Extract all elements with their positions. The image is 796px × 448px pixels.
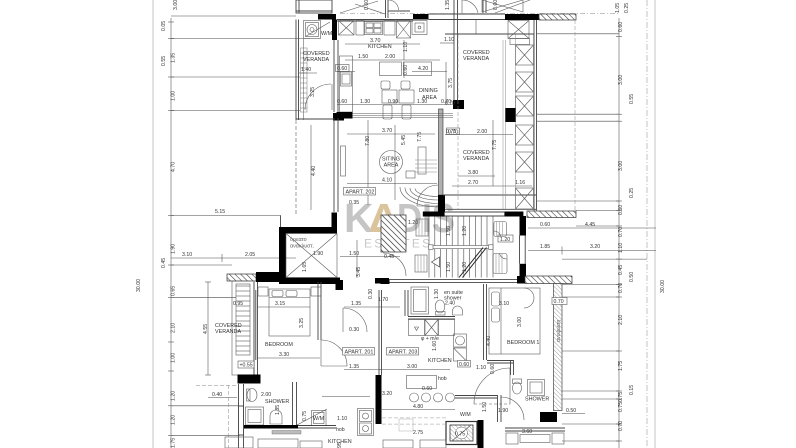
svg-text:4.70: 4.70 <box>171 162 177 172</box>
svg-text:0.70: 0.70 <box>618 227 624 237</box>
wall stub <box>487 360 514 375</box>
svg-text:3.00: 3.00 <box>618 75 624 85</box>
svg-text:1.20: 1.20 <box>171 415 177 425</box>
1.85 / 3.20 dimension row <box>528 250 656 252</box>
svg-text:2.05: 2.05 <box>245 252 255 258</box>
svg-text:3.70: 3.70 <box>382 128 392 134</box>
svg-text:1.10: 1.10 <box>444 37 454 43</box>
dining table <box>381 81 414 119</box>
stair direction arrow <box>432 257 440 267</box>
diagonal at top right room <box>495 0 530 13</box>
left extension lines <box>171 16 310 435</box>
svg-text:95: 95 <box>337 442 343 448</box>
svg-text:BEDROOM 1: BEDROOM 1 <box>507 340 539 346</box>
siting door arc to veranda <box>417 185 438 206</box>
svg-text:1.20: 1.20 <box>500 237 510 243</box>
svg-text:1.40: 1.40 <box>301 67 311 73</box>
svg-text:1.20: 1.20 <box>462 262 468 272</box>
svg-text:AREA: AREA <box>384 163 399 169</box>
svg-text:όρεατο: όρεατο <box>290 236 307 243</box>
svg-text:2.10: 2.10 <box>171 323 177 333</box>
toilet 203 <box>435 300 462 315</box>
svg-text:3.15: 3.15 <box>275 301 285 307</box>
svg-text:4.20: 4.20 <box>418 66 428 72</box>
svg-text:1.20: 1.20 <box>171 391 177 401</box>
svg-text:0.70: 0.70 <box>446 129 456 135</box>
svg-text:APART. 202: APART. 202 <box>346 190 375 196</box>
black pillar mid column <box>505 108 516 122</box>
sitting room right wall lower (jog) <box>439 109 444 195</box>
dining dim row <box>337 104 455 106</box>
partial fixtures bottom cut <box>225 437 446 448</box>
svg-text:0.35: 0.35 <box>349 200 359 206</box>
wall at 483 <box>483 0 486 13</box>
5.15 setback edge vertical <box>280 215 282 227</box>
svg-text:0.70: 0.70 <box>445 101 455 107</box>
right property line <box>654 0 656 448</box>
svg-text:3.00: 3.00 <box>618 161 624 171</box>
sideboard left wall <box>341 146 346 176</box>
svg-text:1.10: 1.10 <box>337 416 347 422</box>
hatched bar E top right <box>539 14 576 20</box>
top rooms partition walls <box>386 0 411 18</box>
svg-text:1.85: 1.85 <box>540 244 550 250</box>
doors bottom of bedroom 1 <box>474 368 510 404</box>
svg-text:ανυψωση: ανυψωση <box>556 320 562 342</box>
svg-text:0.30: 0.30 <box>368 289 374 299</box>
svg-text:0.60: 0.60 <box>337 99 347 105</box>
building right edge wall <box>534 20 537 211</box>
siting room left wall <box>333 118 335 212</box>
kitchen cabinets under en-suite <box>409 320 455 336</box>
bedroom right wall + door <box>318 282 321 340</box>
svg-text:1.05: 1.05 <box>615 3 621 13</box>
svg-text:ανάκλυστ.: ανάκλυστ. <box>290 243 314 250</box>
svg-text:4.80: 4.80 <box>413 404 423 410</box>
sink unit bottom <box>358 409 374 436</box>
svg-text:3.10: 3.10 <box>499 301 509 307</box>
svg-text:1.30: 1.30 <box>417 99 427 105</box>
svg-text:1.50: 1.50 <box>446 262 452 272</box>
svg-text:3.80: 3.80 <box>468 170 478 176</box>
dining right wall <box>454 0 458 100</box>
APART. 203 box <box>387 348 419 356</box>
shower tray 203 <box>411 287 429 314</box>
svg-text:0.50: 0.50 <box>629 272 635 282</box>
svg-text:1.00: 1.00 <box>171 91 177 101</box>
svg-text:3.25: 3.25 <box>310 87 316 97</box>
svg-text:1.20: 1.20 <box>408 220 418 226</box>
0.70 boxed on wall <box>447 128 460 135</box>
svg-text:3.00: 3.00 <box>407 364 417 370</box>
svg-text:0.45: 0.45 <box>618 265 624 275</box>
black bar H <box>453 100 464 109</box>
shower right wall <box>293 382 297 425</box>
bed <box>258 287 321 336</box>
veranda door arc <box>305 84 331 110</box>
top-left room above W/M <box>296 0 332 13</box>
svg-text:0.75: 0.75 <box>618 402 624 412</box>
svg-text:0.45: 0.45 <box>161 258 167 268</box>
svg-text:1.50: 1.50 <box>482 402 488 412</box>
bedroom 1 bed <box>489 288 540 354</box>
svg-text:0.60: 0.60 <box>618 22 624 32</box>
svg-text:1.35: 1.35 <box>445 0 451 10</box>
W/M bottom left apt <box>312 411 327 426</box>
wall + door to 203 shower <box>455 395 501 422</box>
greek room interior X <box>286 234 337 278</box>
black bar at veranda/stair junction <box>438 195 445 212</box>
bottom windows bench <box>505 428 565 431</box>
svg-text:1.50: 1.50 <box>349 251 359 257</box>
svg-text:1.10: 1.10 <box>618 243 624 253</box>
svg-text:3.20: 3.20 <box>382 391 392 397</box>
vertical black wall B below bar A <box>332 20 337 41</box>
kitchen island <box>380 62 432 76</box>
svg-text:+0.55: +0.55 <box>240 363 253 369</box>
svg-text:3.30: 3.30 <box>279 352 289 358</box>
svg-text:1.50: 1.50 <box>358 54 368 60</box>
svg-text:2.00: 2.00 <box>261 392 271 398</box>
svg-text:4.10: 4.10 <box>382 178 392 184</box>
radiators left of stairs <box>415 219 428 272</box>
svg-text:VERANDA: VERANDA <box>463 156 489 162</box>
0.55 boxed <box>238 361 254 368</box>
svg-text:0.60: 0.60 <box>422 386 432 392</box>
svg-text:1.70: 1.70 <box>378 297 388 303</box>
svg-text:1.00: 1.00 <box>171 353 177 363</box>
bottom wall of stair block <box>375 278 389 284</box>
svg-text:SHOWER: SHOWER <box>265 399 289 405</box>
second level: 4.55 <box>207 282 209 375</box>
svg-text:1.65: 1.65 <box>302 262 308 272</box>
lift shaft hatched <box>381 215 406 252</box>
separating wall 201/203 black <box>376 375 382 424</box>
left kitchen wall + counter <box>334 40 338 112</box>
black bar G bottom of kitchen wall <box>337 112 353 119</box>
svg-text:0.90: 0.90 <box>388 99 398 105</box>
svg-text:2.70: 2.70 <box>468 180 478 186</box>
greek room walls <box>279 227 337 234</box>
svg-text:1.35: 1.35 <box>349 364 359 370</box>
bottom wall <box>244 425 298 429</box>
svg-text:1.35: 1.35 <box>171 53 177 63</box>
svg-text:0.55: 0.55 <box>161 56 167 66</box>
svg-text:1.30: 1.30 <box>434 289 440 299</box>
wall black bar D (top right) <box>505 14 539 20</box>
0.75 hatched box <box>446 420 484 448</box>
svg-text:30.00: 30.00 <box>136 279 142 292</box>
fridge units right <box>454 334 467 361</box>
svg-text:0.75: 0.75 <box>618 392 624 402</box>
svg-text:3.10: 3.10 <box>182 252 192 258</box>
black bar bottom <box>540 412 557 422</box>
svg-text:0.60: 0.60 <box>540 222 550 228</box>
svg-text:BEDROOM: BEDROOM <box>265 342 293 348</box>
bottom center faint square + dashed lines <box>399 419 413 431</box>
svg-text:3.00: 3.00 <box>517 317 523 327</box>
4.40 inner dim <box>310 125 312 210</box>
stair block top wall: black bars + lintel <box>423 212 445 217</box>
W/M room (washing machine) <box>304 21 331 39</box>
svg-text:2.00: 2.00 <box>385 54 395 60</box>
svg-text:3.60: 3.60 <box>522 429 532 435</box>
shower tray <box>246 407 264 425</box>
svg-text:0.15: 0.15 <box>629 385 635 395</box>
svg-text:0.60: 0.60 <box>459 362 469 368</box>
svg-text:0.40: 0.40 <box>212 392 222 398</box>
svg-text:VERANDA: VERANDA <box>463 56 489 62</box>
svg-text:4.45: 4.45 <box>585 222 595 228</box>
svg-text:0.95: 0.95 <box>233 301 243 307</box>
0.60 / 4.45 dimension row <box>528 227 656 229</box>
svg-text:KITCHEN: KITCHEN <box>428 358 452 364</box>
apartment separating wall black <box>336 280 344 290</box>
svg-text:1.10: 1.10 <box>476 365 486 371</box>
svg-text:1.90: 1.90 <box>171 244 177 254</box>
svg-text:0.55: 0.55 <box>629 94 635 104</box>
left property line <box>152 0 154 448</box>
svg-text:3.25: 3.25 <box>299 318 305 328</box>
door arc top room <box>389 0 399 10</box>
right wall (hatched) <box>554 284 563 411</box>
svg-text:1.50: 1.50 <box>446 226 452 236</box>
svg-text:0.70: 0.70 <box>554 299 564 305</box>
svg-text:0.70: 0.70 <box>618 421 624 431</box>
svg-text:4.55: 4.55 <box>203 324 209 334</box>
svg-text:hob: hob <box>336 427 345 433</box>
handrail <box>429 245 494 250</box>
sofas right of stairs <box>494 222 507 237</box>
left wall with window <box>239 384 244 448</box>
svg-text:3.20: 3.20 <box>590 244 600 250</box>
horizontal top edge of veranda block <box>445 33 534 35</box>
toilet <box>247 389 258 402</box>
svg-text:5.45: 5.45 <box>401 135 407 145</box>
dashed line right <box>574 20 576 210</box>
hatched roof bar + black bar top <box>227 274 256 281</box>
bedroom window wall <box>254 282 258 375</box>
svg-text:0.30: 0.30 <box>349 327 359 333</box>
left wall of bedroom1 <box>484 284 487 360</box>
walls around en-suite <box>405 290 455 319</box>
svg-text:0.50: 0.50 <box>566 408 576 414</box>
APART. 201 box <box>343 348 375 356</box>
first X box right column (wide) <box>476 20 530 45</box>
APART. 202 box <box>344 188 376 196</box>
wall black bar A (top, left of kitchen) <box>318 14 336 20</box>
svg-text:3.00: 3.00 <box>173 0 179 10</box>
1.20 boxed label <box>498 235 513 242</box>
svg-text:1.30: 1.30 <box>360 99 370 105</box>
svg-text:W/M: W/M <box>460 412 471 418</box>
svg-text:2.40: 2.40 <box>445 301 455 307</box>
svg-text:0.60: 0.60 <box>618 205 624 215</box>
svg-text:1.35: 1.35 <box>351 301 361 307</box>
5.15 dimension <box>171 214 281 216</box>
kitchen counters along top <box>339 21 428 39</box>
svg-text:7.75: 7.75 <box>417 132 423 142</box>
kitchen dim lines <box>337 40 447 105</box>
black bar bottom of bedroom <box>238 375 261 384</box>
svg-text:APART. 201: APART. 201 <box>345 350 374 356</box>
svg-text:VERANDA: VERANDA <box>303 57 329 63</box>
svg-text:0.60: 0.60 <box>337 66 347 72</box>
svg-text:3.75: 3.75 <box>448 78 454 88</box>
svg-text:1.90: 1.90 <box>313 251 323 257</box>
svg-text:1.75: 1.75 <box>618 361 624 371</box>
stair treads <box>429 217 493 278</box>
svg-text:4.40: 4.40 <box>311 166 317 176</box>
window sill lines between G and H <box>353 114 454 118</box>
right extension lines <box>537 34 647 441</box>
lintel over opening to top room <box>429 14 506 20</box>
diagonal roof line top-left room <box>355 4 385 14</box>
svg-text:0.65: 0.65 <box>171 286 177 296</box>
cut-off X box above top wall <box>482 0 523 12</box>
svg-text:W/M: W/M <box>313 416 325 422</box>
kitchen top wall (thin double) <box>337 20 413 22</box>
hatched bar right of stair block <box>527 211 576 218</box>
svg-text:W/M: W/M <box>321 31 333 37</box>
svg-text:APART. 203: APART. 203 <box>389 350 418 356</box>
shower room right apt <box>513 379 522 394</box>
svg-text:2.75: 2.75 <box>413 430 423 436</box>
black bar I veranda bottom <box>333 113 344 121</box>
svg-text:1.75: 1.75 <box>171 438 177 448</box>
svg-text:1.20: 1.20 <box>462 226 468 236</box>
curved sofa corner <box>400 171 438 207</box>
stair break diagonal <box>459 248 487 278</box>
svg-text:0.60: 0.60 <box>364 0 370 10</box>
svg-text:SHOWER: SHOWER <box>525 397 549 403</box>
svg-text:1.90: 1.90 <box>498 408 508 414</box>
island with hob <box>407 376 455 403</box>
svg-text:0.75: 0.75 <box>455 432 465 438</box>
veranda bottom edge lines <box>443 195 536 209</box>
svg-text:VERANDA: VERANDA <box>215 329 241 335</box>
svg-text:5.15: 5.15 <box>215 209 225 215</box>
right wall of stair block <box>520 216 527 236</box>
X-box column <box>516 45 534 209</box>
dashed reference line across top <box>340 13 620 15</box>
svg-text:1.60: 1.60 <box>432 341 438 351</box>
svg-text:KITCHEN: KITCHEN <box>368 44 392 50</box>
top hatched bar <box>517 276 525 284</box>
svg-text:0.25: 0.25 <box>629 188 635 198</box>
sofa lobby <box>493 254 507 274</box>
dashed veranda edge continuation <box>295 120 297 215</box>
svg-text:30.00: 30.00 <box>660 280 666 293</box>
svg-text:1.16: 1.16 <box>515 180 525 186</box>
vertical lines inside veranda (column guides) <box>458 34 534 210</box>
3.10 / 2.05 row <box>171 257 296 259</box>
veranda strip left <box>232 281 254 375</box>
svg-text:0.25: 0.25 <box>624 3 630 13</box>
siting area circle <box>380 151 403 174</box>
svg-text:0.05: 0.05 <box>161 21 167 31</box>
svg-text:2.10: 2.10 <box>618 315 624 325</box>
top rooms right of kitchen door arc <box>462 0 478 13</box>
0.70 boxed <box>552 298 567 305</box>
svg-text:2.00: 2.00 <box>477 129 487 135</box>
sofa along right wall <box>418 147 426 174</box>
svg-text:DINING: DINING <box>419 88 438 94</box>
svg-text:hob: hob <box>438 376 447 382</box>
basin <box>270 410 282 424</box>
wall black bar C <box>413 14 429 20</box>
